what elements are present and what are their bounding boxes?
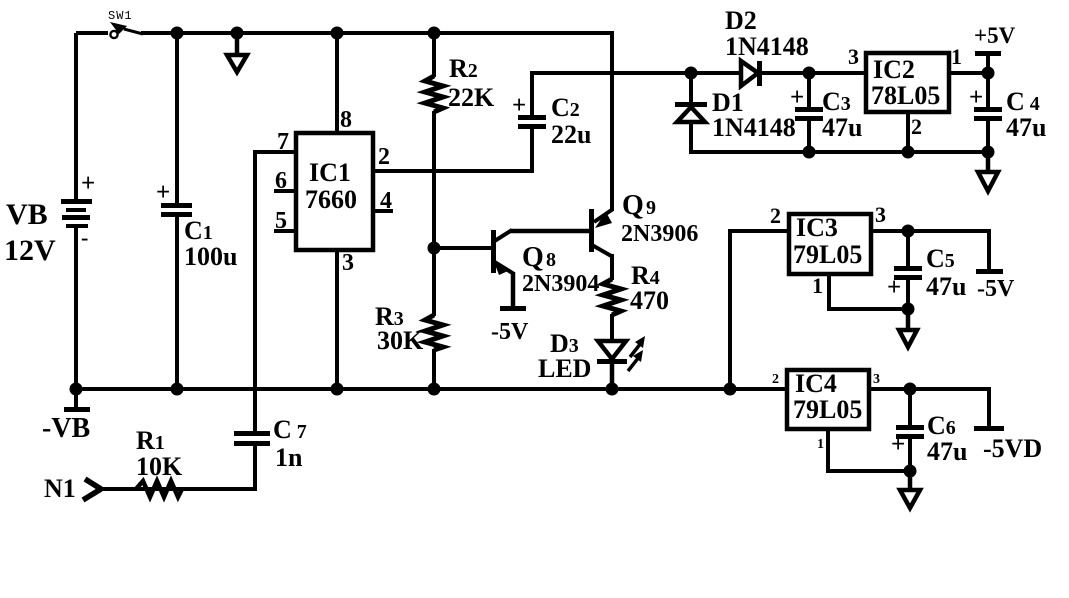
wire IC1 pin3 [335,250,339,389]
node IC1 pin3 bottom [331,383,344,396]
svg-text:LED: LED [538,354,591,383]
wire IC1 pin5 stub [274,229,296,233]
node C3 bottom [803,146,816,159]
svg-text:12V: 12V [4,234,56,267]
svg-text:-5V: -5V [491,319,529,345]
wire IC1 pin2 to C2 [373,129,534,171]
svg-text:1N4148: 1N4148 [725,32,809,61]
svg-text:Q: Q [622,190,644,221]
svg-text:+: + [156,179,170,206]
capacitor C4 [969,73,1002,152]
wire bottom rail [74,387,789,391]
svg-text:470: 470 [630,286,669,315]
node IC1 pin8 [331,27,344,40]
node C4 bottom [982,146,995,159]
diode D1 1N4148 [675,73,707,154]
node C5 top [902,225,915,238]
svg-text:5: 5 [275,208,287,234]
wire IC3 pin1 [827,274,908,311]
wire IC1 pin8 [335,33,339,133]
wire IC4 pin1 [826,429,910,473]
svg-text:7660: 7660 [305,185,357,214]
terminal -5V (Q8 emitter) [500,306,526,311]
svg-text:+: + [969,84,983,111]
capacitor C6 [891,389,924,471]
switch SW1 [76,22,143,38]
wire Q8 base [434,246,493,250]
port N1 [83,479,101,500]
capacitor C3 [790,73,823,152]
svg-text:3: 3 [848,44,859,69]
svg-text:+: + [790,84,804,111]
svg-text:3: 3 [873,372,880,387]
svg-text:2: 2 [911,114,922,139]
node Q8 base tap [428,242,441,255]
battery VB [61,33,95,389]
transistor Q8 2N3904 [491,230,514,307]
node C6 top [904,383,917,396]
wire IC3 pin3 [871,229,991,233]
svg-text:22K: 22K [448,83,495,112]
node battery bottom [70,383,83,396]
svg-text:2: 2 [770,203,781,228]
svg-text:SW1: SW1 [108,9,133,23]
node C6 bottom [904,465,917,478]
svg-text:-VB: -VB [42,413,90,444]
resistor R1 [136,481,182,497]
svg-text:D2: D2 [725,6,757,35]
node C3 top [803,67,816,80]
resistor R2 [425,33,443,249]
svg-text:-5VD: -5VD [983,434,1042,463]
wire C2 top to D junction [530,71,742,75]
wire IC4 pin3 [869,387,991,391]
svg-text:1: 1 [817,437,824,452]
svg-text:2N3904: 2N3904 [522,271,599,297]
node D1 D2 junction [685,67,698,80]
svg-text:+: + [81,170,95,197]
node ground tap [231,27,244,40]
transistor Q9 2N3906 [589,31,613,280]
svg-text:79L05: 79L05 [793,395,862,424]
svg-text:10K: 10K [136,452,183,481]
terminal +5V [975,51,1001,74]
node C1 top [171,27,184,40]
ground (top) [227,33,247,72]
svg-text:78L05: 78L05 [871,81,940,110]
svg-text:1n: 1n [275,443,303,472]
wire IC3 pin2 [728,229,789,389]
node D3 bottom [606,383,619,396]
svg-text:IC1: IC1 [309,158,351,187]
svg-text:+: + [887,274,901,301]
svg-text:30K: 30K [377,326,424,355]
svg-text:Q: Q [522,242,544,273]
LED D3 [597,336,645,389]
op IC2 box 78L05 [866,53,949,112]
wire R3 top [432,248,436,316]
ground (C6) [900,471,920,508]
svg-text:8: 8 [546,249,556,271]
capacitor C2 [512,73,546,129]
svg-text:47u: 47u [822,113,862,142]
node C1 bottom [171,383,184,396]
wire IC1 pin4 stub [373,209,393,213]
svg-text:3: 3 [875,202,886,227]
ground (C5) [899,309,917,347]
wire D1 bottom rail [689,150,990,154]
capacitor C1 [156,33,192,389]
svg-text:1: 1 [951,44,962,69]
svg-text:3: 3 [342,250,354,276]
wire Q8 collector to Q9 base [510,229,590,234]
terminal -5VD [974,389,1004,431]
wire IC1 pin6 stub [274,189,296,193]
node IC2 pin2 bottom [902,146,915,159]
wire N1 to C7 [97,487,257,491]
svg-text:+: + [512,92,526,119]
wire IC2 pin2 [906,112,910,152]
svg-text:47u: 47u [926,272,966,301]
terminal -5V (IC3) [976,231,1003,274]
wire IC1 pin7 [253,150,296,431]
capacitor C7 [234,431,270,491]
wire top rail [141,31,614,35]
svg-text:IC2: IC2 [873,55,915,84]
svg-text:47u: 47u [1006,113,1046,142]
svg-text:-5V: -5V [977,276,1015,302]
svg-text:79L05: 79L05 [793,240,862,269]
svg-text:-: - [81,225,88,250]
svg-text:22u: 22u [551,120,591,149]
svg-text:1N4148: 1N4148 [712,113,796,142]
svg-text:2: 2 [772,372,779,387]
svg-text:4: 4 [380,188,392,214]
svg-text:47u: 47u [927,437,967,466]
svg-text:+5V: +5V [974,23,1016,48]
resistor R4 [603,279,621,342]
diode D2 1N4148 [691,61,866,86]
svg-text:8: 8 [340,107,352,133]
node R3 bottom [428,383,441,396]
node C5 bottom [902,303,915,316]
node R2 top [428,27,441,40]
svg-text:1: 1 [812,273,823,298]
svg-text:IC4: IC4 [795,369,837,398]
svg-text:N1: N1 [44,474,76,503]
node IC3 feed [724,383,737,396]
svg-text:7: 7 [277,129,289,155]
svg-text:IC3: IC3 [796,213,838,242]
svg-text:9: 9 [646,197,656,219]
node C4 top [982,67,995,80]
op IC3 box 79L05 [789,213,871,274]
svg-text:+: + [891,431,905,458]
op IC4 box 79L05 [787,369,869,429]
svg-text:2: 2 [378,144,390,170]
op IC1 box 7660 [296,133,373,250]
capacitor C5 [887,231,922,309]
svg-text:6: 6 [275,168,287,194]
resistor R3 [425,315,443,389]
ground (IC2 rail) [978,152,998,191]
svg-text:100u: 100u [184,242,237,271]
terminal -VB [64,389,90,412]
wire IC2 pin1 [949,71,988,75]
svg-text:2N3906: 2N3906 [621,221,698,247]
svg-text:VB: VB [6,198,48,231]
